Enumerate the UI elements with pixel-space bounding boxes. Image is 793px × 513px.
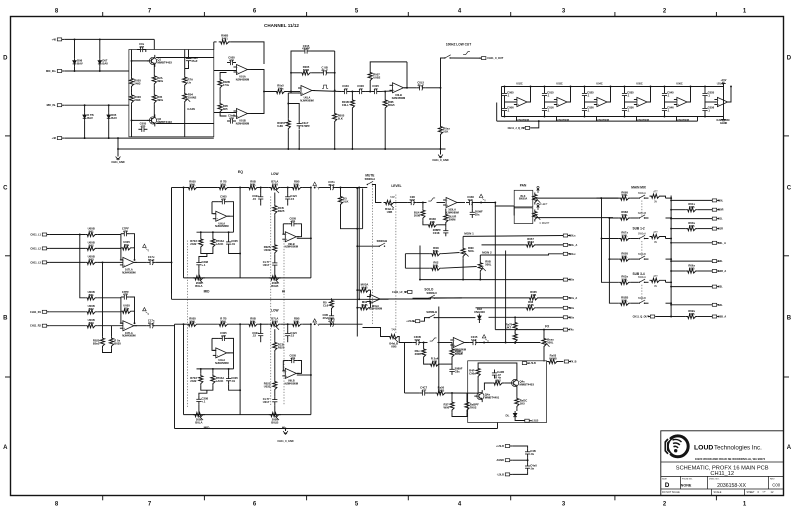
wire mic- rail bbox=[64, 104, 129, 106]
op-amp U_LV bbox=[443, 198, 460, 215]
wire buf3 fb bbox=[647, 87, 650, 103]
connector J_M2 M0L_A bbox=[563, 243, 577, 247]
node N44 bbox=[690, 86, 692, 88]
wire EQL hi drop bbox=[274, 329, 276, 340]
svg-text:MON 2: MON 2 bbox=[482, 250, 492, 254]
wire mon1 bot bbox=[462, 258, 464, 279]
svg-text:7K02: 7K02 bbox=[470, 405, 477, 409]
svg-text:B0x: B0x bbox=[124, 307, 130, 311]
wire inp cap branch bbox=[288, 104, 299, 121]
title block drawing name bbox=[676, 465, 769, 477]
capacitor C_EQLf bbox=[219, 331, 228, 341]
resistor R_EQU1 bbox=[187, 180, 199, 190]
node N98 bbox=[356, 307, 358, 309]
wire W68 bbox=[437, 202, 446, 204]
wire diode drop 1b bbox=[99, 39, 101, 58]
resistor R_MM0 bbox=[619, 190, 631, 200]
capacitor CO1 bbox=[147, 318, 156, 328]
node N53 bbox=[260, 187, 262, 189]
svg-text:FXx: FXx bbox=[569, 329, 574, 332]
svg-text:NJM4580M: NJM4580M bbox=[445, 211, 458, 215]
node N72 bbox=[239, 323, 241, 325]
label GAIN bbox=[187, 107, 195, 111]
svg-text:CH11_L3: CH11_L3 bbox=[30, 261, 41, 264]
node N121 bbox=[670, 286, 672, 288]
wire EQU c to leg bbox=[229, 248, 241, 254]
wire mute to level bbox=[373, 185, 382, 203]
wire level dash bbox=[395, 195, 397, 334]
label netlabel U02C bbox=[516, 83, 523, 86]
svg-text:-: - bbox=[637, 98, 638, 102]
resistor R_FX2 bbox=[429, 356, 441, 366]
connector J5 CH11_X_OUT bbox=[479, 57, 504, 61]
resistor R2 bbox=[129, 93, 141, 105]
wire box int 11 bbox=[188, 50, 190, 56]
svg-text:.15: .15 bbox=[252, 197, 256, 201]
node N117 bbox=[670, 228, 672, 230]
wire qout wire bbox=[655, 316, 671, 318]
power AGND bbox=[720, 117, 728, 126]
label sw label 3 bbox=[638, 253, 646, 256]
svg-text:NJM4580M: NJM4580M bbox=[285, 245, 298, 249]
wire mo wire 8 bbox=[671, 304, 712, 306]
wire EQL mid in bbox=[212, 338, 215, 350]
resistor R_EQU3 bbox=[247, 180, 259, 190]
svg-text:U0B: U0B bbox=[689, 266, 695, 270]
capacitor CI01 bbox=[121, 227, 130, 237]
wire mute dash bbox=[371, 186, 373, 326]
svg-text:47uF: 47uF bbox=[148, 258, 155, 262]
wire blk to pot R bbox=[533, 215, 535, 217]
node N6 bbox=[108, 104, 110, 106]
wire buf2 cap drop bbox=[584, 87, 586, 91]
wire bg wire 3 bbox=[512, 472, 527, 475]
wire W37 bbox=[281, 187, 291, 189]
svg-text:MON 1: MON 1 bbox=[464, 232, 474, 236]
resistor R4 bbox=[152, 93, 163, 105]
node N12 bbox=[290, 91, 292, 93]
connector J_M3 M0Lx bbox=[563, 252, 576, 256]
wire mon2 out rail bbox=[480, 254, 563, 255]
connector J11 CH11_R2 bbox=[30, 324, 49, 328]
wire fb1 bbox=[220, 73, 226, 78]
svg-text:B02: B02 bbox=[89, 307, 95, 311]
resistor R_FX5 bbox=[513, 332, 517, 344]
wire lv fb a bbox=[445, 209, 447, 213]
wire buffer left end bbox=[501, 87, 503, 117]
wire W47 bbox=[274, 255, 276, 260]
connector J8 CH11_L2 bbox=[30, 247, 49, 251]
svg-text:MAIN MIX: MAIN MIX bbox=[631, 186, 647, 190]
wire EQL cap drop r bbox=[287, 324, 289, 330]
svg-text:SW08LB: SW08LB bbox=[426, 310, 437, 314]
connector J_B2 AGND bbox=[497, 459, 513, 463]
node N33 bbox=[544, 86, 546, 88]
wire W6 bbox=[365, 91, 371, 93]
power flag PF_LV bbox=[479, 194, 486, 202]
svg-text:47uF: 47uF bbox=[417, 83, 424, 87]
node N112 bbox=[601, 238, 603, 240]
svg-text:25x: 25x bbox=[475, 213, 480, 217]
svg-text:S3L: S3L bbox=[718, 286, 723, 289]
svg-text:+: + bbox=[597, 102, 599, 106]
wire EQU mid bus bbox=[197, 231, 234, 233]
resistor R_MN2 bbox=[430, 260, 442, 270]
svg-text:DO NOT SCALE: DO NOT SCALE bbox=[662, 491, 680, 494]
power flag PF_I1 bbox=[143, 308, 150, 316]
node N17 bbox=[287, 148, 289, 150]
label C RIGHT bbox=[540, 222, 550, 225]
wire EQU hi right leg bbox=[310, 188, 312, 278]
wire cp feed wire bbox=[405, 392, 420, 394]
svg-text:1K5: 1K5 bbox=[520, 402, 526, 406]
capacitor CB5a bbox=[702, 90, 714, 99]
svg-text:100x: 100x bbox=[277, 86, 284, 90]
svg-text:7K02: 7K02 bbox=[527, 240, 534, 244]
node N28 bbox=[117, 137, 119, 139]
wire gang 2 bbox=[641, 241, 643, 257]
connector J_MO5 S2L bbox=[712, 260, 723, 264]
node N56 bbox=[340, 187, 342, 189]
connector J4 +48 bbox=[52, 137, 65, 141]
svg-text:ATT: ATT bbox=[653, 231, 658, 234]
svg-text:B03: B03 bbox=[89, 321, 95, 325]
transistor Q1 bbox=[147, 55, 172, 67]
wire cp shunt join bbox=[452, 412, 467, 416]
svg-text:+L5LB: +L5LB bbox=[406, 320, 414, 323]
wire box int 12 bbox=[185, 64, 189, 68]
label MID EQL bbox=[204, 426, 211, 430]
wire W31 bbox=[97, 325, 123, 327]
wire diode drop 1a bbox=[74, 39, 76, 58]
label CH11_X_GND label bbox=[277, 440, 293, 443]
op-amp UI0 bbox=[120, 257, 137, 274]
wire mon rail 2 bbox=[405, 267, 430, 269]
resistor R10 bbox=[300, 65, 312, 75]
svg-text:U017: U017 bbox=[263, 263, 270, 267]
capacitor CB0b bbox=[502, 105, 514, 114]
wire W50 bbox=[229, 323, 247, 325]
wire mo wire 5 bbox=[671, 260, 712, 262]
wire top ext a bbox=[214, 41, 217, 43]
wire fx feed vert bbox=[505, 251, 507, 343]
svg-text:+: + bbox=[393, 88, 395, 92]
capacitor C1 bbox=[137, 42, 146, 52]
node N37 bbox=[584, 116, 586, 118]
svg-text:5LK: 5LK bbox=[338, 117, 343, 121]
node N32 bbox=[530, 86, 532, 88]
wire W49 bbox=[199, 323, 218, 325]
svg-text:100HZ LOW CUT: 100HZ LOW CUT bbox=[446, 43, 471, 47]
capacitor CB1a bbox=[542, 90, 554, 99]
svg-text:MUTE: MUTE bbox=[365, 174, 374, 178]
wire left vert A low bbox=[171, 262, 173, 299]
node N76 bbox=[239, 389, 241, 391]
node N38 bbox=[610, 86, 612, 88]
wire shunt b drop bbox=[384, 92, 386, 99]
svg-text:NJM4580M: NJM4580M bbox=[285, 381, 298, 385]
resistor RF1 bbox=[121, 304, 133, 314]
wire W48 bbox=[274, 269, 276, 278]
resistor R_ATT4 bbox=[650, 278, 662, 282]
svg-text:.15: .15 bbox=[290, 334, 294, 338]
wire EQL mid join bbox=[201, 386, 213, 391]
wire to hpf bbox=[425, 87, 440, 89]
wire W94 bbox=[645, 197, 649, 199]
power flag PF_EQU bbox=[313, 182, 320, 190]
wire W89 bbox=[516, 408, 518, 411]
wire bias drop bbox=[153, 39, 155, 49]
svg-text:LOUD: LOUD bbox=[694, 444, 713, 451]
svg-text:C RIGHT: C RIGHT bbox=[540, 222, 550, 225]
block outline limiter block bbox=[468, 361, 547, 423]
resistor R_EQL1 bbox=[187, 316, 199, 326]
connector J_CP1 +L5LB bbox=[522, 362, 536, 366]
resistor R_LV1 bbox=[414, 208, 425, 220]
svg-text:500L: 500L bbox=[468, 249, 475, 253]
wire W95 bbox=[662, 196, 666, 198]
svg-text:LACK: LACK bbox=[216, 379, 224, 383]
capacitor C_EQUm2 bbox=[196, 259, 208, 268]
resistor R_FXO bbox=[547, 354, 559, 364]
wire W22 bbox=[97, 234, 121, 236]
wire W5 bbox=[350, 91, 356, 93]
node N74 bbox=[212, 368, 214, 370]
wire W11 bbox=[584, 99, 586, 105]
node N103 bbox=[514, 316, 516, 318]
connector J_M7 M0x bbox=[563, 316, 574, 320]
wire fb2 top bbox=[311, 50, 335, 52]
svg-text:SW0xA: SW0xA bbox=[638, 232, 646, 235]
svg-text:5236: 5236 bbox=[303, 68, 310, 72]
svg-text:SCALE: SCALE bbox=[714, 491, 722, 494]
resistor R8 bbox=[218, 102, 228, 114]
wire res to rail bbox=[334, 124, 336, 150]
svg-text:A: A bbox=[3, 445, 8, 451]
capacitor C7b bbox=[297, 120, 311, 129]
svg-text:2493: 2493 bbox=[134, 82, 141, 86]
wire mon1 top bbox=[462, 236, 464, 246]
wire EQU mid join bbox=[201, 249, 213, 254]
wire hpf up bbox=[441, 58, 445, 88]
wire W9 bbox=[544, 99, 546, 105]
wire vert res drop a bbox=[102, 262, 104, 336]
resistor R9 bbox=[275, 83, 287, 93]
switch SW08LB bbox=[426, 310, 437, 318]
wire q1 collector to edge bbox=[156, 57, 214, 59]
switch SW_MM2 bbox=[639, 235, 646, 239]
svg-text:FX_B: FX_B bbox=[570, 361, 577, 364]
connector J_MO9 S0B_A bbox=[712, 315, 726, 319]
wire mm feed 2 bbox=[609, 217, 618, 219]
resistor R11 bbox=[333, 112, 345, 124]
wire W96 bbox=[666, 197, 672, 199]
svg-text:B: B bbox=[3, 316, 8, 322]
connector J_S2 +L5LB bbox=[406, 320, 420, 324]
wire W77 bbox=[422, 342, 428, 344]
wire W87 bbox=[504, 382, 510, 384]
svg-text:BHB: BHB bbox=[362, 303, 368, 307]
wire W32 bbox=[133, 310, 135, 312]
wire W19 bbox=[49, 234, 85, 236]
resistor R_EQL3 bbox=[247, 316, 259, 326]
node N63 bbox=[310, 187, 312, 189]
svg-text:R025: R025 bbox=[278, 209, 285, 213]
svg-text:U03C: U03C bbox=[556, 83, 563, 86]
svg-text:.47F: .47F bbox=[421, 388, 427, 392]
wire W72 bbox=[439, 224, 446, 226]
resistor R_LV3 bbox=[444, 213, 457, 225]
wire W113 bbox=[666, 302, 672, 304]
node N87 bbox=[422, 202, 424, 204]
node N107 bbox=[670, 217, 672, 219]
capacitor C5 bbox=[227, 113, 236, 123]
svg-text:47P: 47P bbox=[140, 125, 145, 129]
svg-text:470PF: 470PF bbox=[302, 47, 310, 51]
wire left vert A bbox=[171, 188, 173, 263]
capacitor C_EQUf bbox=[219, 195, 228, 205]
svg-text:2008: 2008 bbox=[414, 213, 421, 217]
wire mm feed 3 bbox=[602, 238, 619, 240]
wire box int 5 bbox=[153, 86, 155, 93]
svg-text:2493: 2493 bbox=[134, 98, 141, 102]
svg-text:2008: 2008 bbox=[272, 319, 279, 323]
svg-text:MMBT4401: MMBT4401 bbox=[485, 396, 500, 400]
wire box int 4 bbox=[153, 65, 155, 74]
wire fb3 bot bbox=[369, 83, 371, 92]
svg-text:-: - bbox=[370, 295, 371, 299]
svg-text:500L: 500L bbox=[485, 262, 492, 266]
node N119 bbox=[670, 260, 672, 262]
potentiometer VR_LEVEL bbox=[384, 200, 396, 214]
svg-text:BUG5: BUG5 bbox=[455, 352, 463, 356]
capacitor C3 bbox=[186, 55, 198, 64]
node N7 bbox=[84, 137, 86, 139]
node N9 bbox=[131, 60, 133, 62]
node N22 bbox=[384, 91, 386, 93]
svg-text:500L: 500L bbox=[622, 277, 629, 281]
wire W82 bbox=[441, 363, 452, 365]
wire W30 bbox=[97, 311, 121, 313]
wire buf2 in bbox=[585, 101, 597, 103]
resistor R_EQLh1 bbox=[264, 380, 277, 392]
wire aux drop bbox=[697, 117, 699, 122]
label buf1 partno bbox=[556, 119, 569, 122]
resistor R3 bbox=[152, 74, 163, 86]
op-amp U_EQUh bbox=[282, 232, 299, 249]
wire lower band rail bbox=[175, 428, 498, 430]
wire W40 bbox=[303, 187, 311, 189]
svg-text:-: - bbox=[557, 98, 558, 102]
wire mo wire 9 bbox=[671, 316, 686, 318]
connector J_CP2 +L5LB bbox=[525, 419, 539, 423]
node N123 bbox=[670, 316, 672, 318]
wire buffer aux rail bbox=[497, 120, 698, 122]
switch SW_MM3 bbox=[639, 256, 646, 260]
potentiometer VR_TAP2 bbox=[388, 334, 400, 348]
wire W67 bbox=[417, 202, 427, 204]
svg-text:47P: 47P bbox=[221, 334, 226, 338]
wire W106 bbox=[666, 258, 672, 260]
resistor R_EQLm2 bbox=[211, 374, 224, 386]
wire W85 bbox=[514, 331, 516, 334]
svg-text:500L: 500L bbox=[294, 183, 301, 187]
wire aux drop bbox=[516, 117, 518, 122]
wire solo diode stub bbox=[478, 322, 480, 323]
wire W17 bbox=[704, 99, 706, 105]
svg-text:S0L_A: S0L_A bbox=[718, 242, 726, 245]
node N16 bbox=[287, 103, 289, 105]
wire pot dash 3 bbox=[283, 241, 285, 405]
svg-text:47P: 47P bbox=[221, 197, 226, 201]
wire W90 bbox=[428, 392, 435, 394]
svg-text:+L5LB: +L5LB bbox=[496, 445, 504, 448]
label MUTE bbox=[365, 174, 374, 178]
svg-text:+L5LB: +L5LB bbox=[528, 362, 536, 365]
node N10 bbox=[131, 119, 133, 121]
op-amp UI1 bbox=[120, 321, 137, 338]
wire r to rail bbox=[287, 131, 289, 149]
wire EQU shunt drop bbox=[340, 188, 342, 195]
resistor R_MN1 bbox=[430, 246, 442, 256]
svg-text:SW0xA: SW0xA bbox=[638, 276, 646, 279]
wire buffer top rail bbox=[502, 86, 724, 88]
svg-text:174x: 174x bbox=[223, 83, 230, 87]
node N52 bbox=[102, 261, 104, 263]
svg-text:MID: MID bbox=[204, 290, 211, 294]
wire EQL to c208 bbox=[199, 390, 207, 396]
label MON 2 bbox=[482, 250, 492, 254]
wire W12 bbox=[584, 114, 586, 117]
capacitor C_EQLo bbox=[327, 317, 336, 327]
svg-text:200M: 200M bbox=[449, 218, 457, 222]
svg-text:0N: 0N bbox=[654, 285, 657, 288]
label D solo bbox=[474, 307, 485, 314]
svg-text:EQ: EQ bbox=[238, 170, 243, 174]
svg-text:.22: .22 bbox=[359, 87, 363, 91]
svg-text:UxF: UxF bbox=[471, 338, 477, 342]
wire EQL op to bus bbox=[233, 353, 235, 369]
svg-text:CH11_X_OUT: CH11_X_OUT bbox=[487, 57, 503, 60]
wire aux drop bbox=[596, 117, 598, 122]
wire buf0 in bbox=[505, 101, 517, 103]
svg-text:08050A: 08050A bbox=[519, 198, 528, 201]
capacitor CB2b bbox=[582, 105, 594, 114]
wire W76 bbox=[537, 307, 564, 309]
wire stage2 in bbox=[287, 91, 301, 93]
wire W52 bbox=[281, 323, 291, 325]
diode D_SOLO bbox=[478, 314, 482, 322]
svg-text:-: - bbox=[286, 369, 287, 373]
wire W97 bbox=[631, 217, 639, 219]
diode D_DL bbox=[513, 411, 517, 419]
wire aux drop bbox=[676, 117, 678, 122]
wire EQU mid fb bbox=[227, 202, 233, 217]
node N11 bbox=[263, 91, 265, 93]
node N18 bbox=[298, 148, 300, 150]
node N3 bbox=[74, 70, 76, 72]
wire EQL cap drop l bbox=[260, 324, 262, 330]
wire W79 bbox=[464, 342, 469, 344]
svg-text:-: - bbox=[123, 258, 124, 262]
svg-text:SIZE: SIZE bbox=[662, 479, 667, 481]
wire mon2 bot bbox=[479, 273, 481, 280]
svg-text:DWG. NO.: DWG. NO. bbox=[709, 479, 720, 481]
svg-text:U0B: U0B bbox=[689, 205, 695, 209]
wire EQU hi out to leg bbox=[297, 237, 311, 239]
svg-text:C9B: C9B bbox=[531, 293, 537, 297]
capacitor C_LV2 bbox=[466, 195, 475, 205]
